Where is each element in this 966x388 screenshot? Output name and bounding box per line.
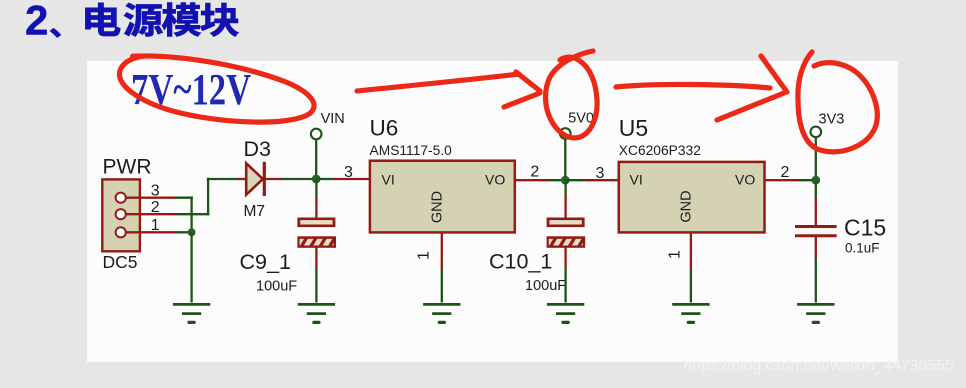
- svg-text:U6: U6: [370, 115, 399, 140]
- wire C9_1 to ground: [315, 269, 317, 303]
- wire pin1 to ground net: [175, 231, 191, 233]
- pin number 2 (U6 VO): [530, 163, 539, 180]
- junction 3V3: [811, 176, 820, 185]
- regulator U5 body: [619, 162, 765, 233]
- junction (ground net): [188, 228, 196, 236]
- U5 input pin stub, pin 3: [565, 179, 619, 181]
- label VIN: [321, 111, 345, 127]
- U5 output pin stub, pin 2: [765, 179, 816, 181]
- label C9_1: [240, 250, 291, 274]
- label 3V3: [819, 112, 845, 128]
- power port 3V3 circle: [811, 127, 822, 138]
- U5 pin name VO: [735, 171, 755, 187]
- svg-text:1: 1: [416, 251, 433, 260]
- label C10_1: [489, 250, 552, 274]
- label 5V0: [568, 111, 594, 127]
- ground (C10_1): [547, 304, 584, 322]
- svg-text:0.1uF: 0.1uF: [845, 241, 880, 256]
- U5 pin name VI: [630, 171, 643, 187]
- connector PWR pin holes: [116, 193, 126, 238]
- junction VIN: [312, 175, 321, 184]
- pin number 3 (U5 VI): [596, 165, 605, 182]
- U6 input pin stub, pin 3: [334, 178, 370, 180]
- svg-text:VI: VI: [382, 171, 395, 187]
- svg-text:GND: GND: [430, 191, 446, 223]
- pin number 1 (U5 GND, rotated): [666, 250, 683, 259]
- power port 5V0 circle: [560, 128, 571, 139]
- C15 bottom pin: [815, 236, 817, 259]
- wire U5 GND to ground: [690, 269, 692, 303]
- svg-text:100uF: 100uF: [525, 278, 566, 294]
- label PWR: [103, 156, 152, 179]
- label 100uF (C10_1): [525, 278, 566, 294]
- U6 pin name VI: [382, 171, 395, 187]
- svg-text:1: 1: [666, 250, 683, 259]
- wire 3V3 circle down: [815, 137, 817, 181]
- pin number 2 (PWR): [151, 199, 160, 216]
- svg-text:C10_1: C10_1: [489, 250, 552, 274]
- svg-text:VO: VO: [485, 171, 505, 187]
- U6 output pin stub, pin 2: [515, 179, 566, 181]
- label 7V~12V input voltage: [131, 64, 251, 114]
- schematic sheet: [87, 61, 898, 362]
- svg-text:XC6206P332: XC6206P332: [619, 143, 701, 158]
- ground (C15): [797, 304, 834, 322]
- pin number 3 (PWR): [151, 182, 160, 199]
- wire U6 GND to ground: [441, 269, 443, 302]
- svg-text:https://blog.csdn.net/weixin_4: https://blog.csdn.net/weixin_44730555: [684, 358, 954, 375]
- svg-text:GND: GND: [679, 190, 695, 222]
- annotation: red arrow to 3V3: [616, 56, 787, 120]
- wire 5V0 junction down to C10_1: [564, 180, 566, 218]
- ground (C9_1): [298, 304, 335, 322]
- capacitor C15: [795, 227, 837, 236]
- svg-text:DC5: DC5: [103, 252, 138, 272]
- wire VIN junction down to C9_1: [315, 179, 317, 219]
- U6 GND pin stub, pin 1: [441, 232, 443, 270]
- ground (U5): [672, 304, 709, 322]
- diode D3: [246, 162, 264, 196]
- svg-text:3V3: 3V3: [819, 112, 845, 128]
- svg-text:100uF: 100uF: [256, 279, 297, 295]
- annotation: red loop around 5V0: [546, 51, 598, 138]
- U5 GND pin stub, pin 1: [690, 232, 692, 270]
- svg-text:M7: M7: [244, 203, 266, 220]
- label DC5: [103, 252, 138, 272]
- svg-text:2: 2: [25, 0, 48, 43]
- title: 2、电源模块: [25, 0, 239, 43]
- annotation: red loop around 3V3: [798, 52, 877, 152]
- capacitor C9_1 (polarized): [293, 218, 344, 249]
- label XC6206P332: [619, 143, 701, 158]
- wire 5V0 circle down: [564, 139, 566, 182]
- capacitor C10_1 (polarized): [542, 218, 593, 249]
- svg-text:2: 2: [781, 164, 790, 181]
- svg-text:C9_1: C9_1: [240, 250, 291, 274]
- label C15: [844, 215, 886, 241]
- svg-text:3: 3: [344, 164, 353, 181]
- svg-text:AMS1117-5.0: AMS1117-5.0: [370, 143, 453, 158]
- wire VIN junction right: [316, 178, 335, 180]
- label U6: [370, 115, 399, 140]
- connector PWR (DC5) body: [102, 179, 140, 251]
- regulator U6 body: [370, 161, 515, 233]
- U6 pin name VO: [485, 171, 505, 187]
- svg-text:VO: VO: [735, 171, 755, 187]
- C9_1 bottom pin: [315, 247, 317, 270]
- pin number 1 (U6 GND, rotated): [416, 251, 433, 260]
- svg-text:VI: VI: [630, 171, 643, 187]
- annotation: red ellipse around 7V~12V: [116, 53, 317, 128]
- svg-text:7V~12V: 7V~12V: [131, 64, 251, 114]
- pin number 1 (PWR): [151, 217, 160, 234]
- pin number 2 (U5 VO): [781, 164, 790, 181]
- label 0.1uF: [845, 241, 880, 256]
- label AMS1117-5.0: [370, 143, 453, 158]
- diode D3 anode stub: [238, 178, 246, 180]
- U5 pin name GND (rotated): [679, 190, 695, 222]
- C10_1 bottom pin: [564, 247, 566, 270]
- svg-text:2: 2: [530, 163, 539, 180]
- U6 pin name GND (rotated): [430, 191, 446, 223]
- wire C10_1 to ground: [564, 268, 566, 303]
- label U5: [619, 115, 648, 141]
- svg-text:VIN: VIN: [321, 111, 345, 127]
- ground (U6): [423, 304, 460, 322]
- svg-text:3: 3: [596, 165, 605, 182]
- pin number 3 (U6 VI): [344, 164, 353, 181]
- annotation: red arrow to 5V0: [357, 72, 540, 107]
- label 100uF (C9_1): [256, 279, 297, 295]
- svg-text:PWR: PWR: [103, 156, 152, 179]
- wire pin2 to diode anode: [175, 178, 239, 216]
- svg-text:D3: D3: [244, 137, 272, 161]
- wire VIN circle down to rail: [315, 139, 317, 180]
- svg-text:C15: C15: [844, 215, 886, 241]
- wire pin3 to ground net: [175, 196, 193, 233]
- wire C15 to ground: [815, 258, 817, 303]
- wire 3V3 junction down to C15: [815, 180, 817, 227]
- ground (PWR net): [173, 304, 210, 322]
- label D3: [244, 137, 272, 161]
- power port VIN circle: [311, 129, 322, 140]
- wire diode to VIN node: [281, 178, 316, 180]
- PWR pin stubs: [126, 198, 176, 233]
- wire junction to ground: [190, 232, 192, 302]
- diode D3 cathode stub: [264, 178, 282, 180]
- junction 5V0: [561, 176, 570, 185]
- svg-text:U5: U5: [619, 115, 648, 141]
- label M7: [244, 203, 266, 220]
